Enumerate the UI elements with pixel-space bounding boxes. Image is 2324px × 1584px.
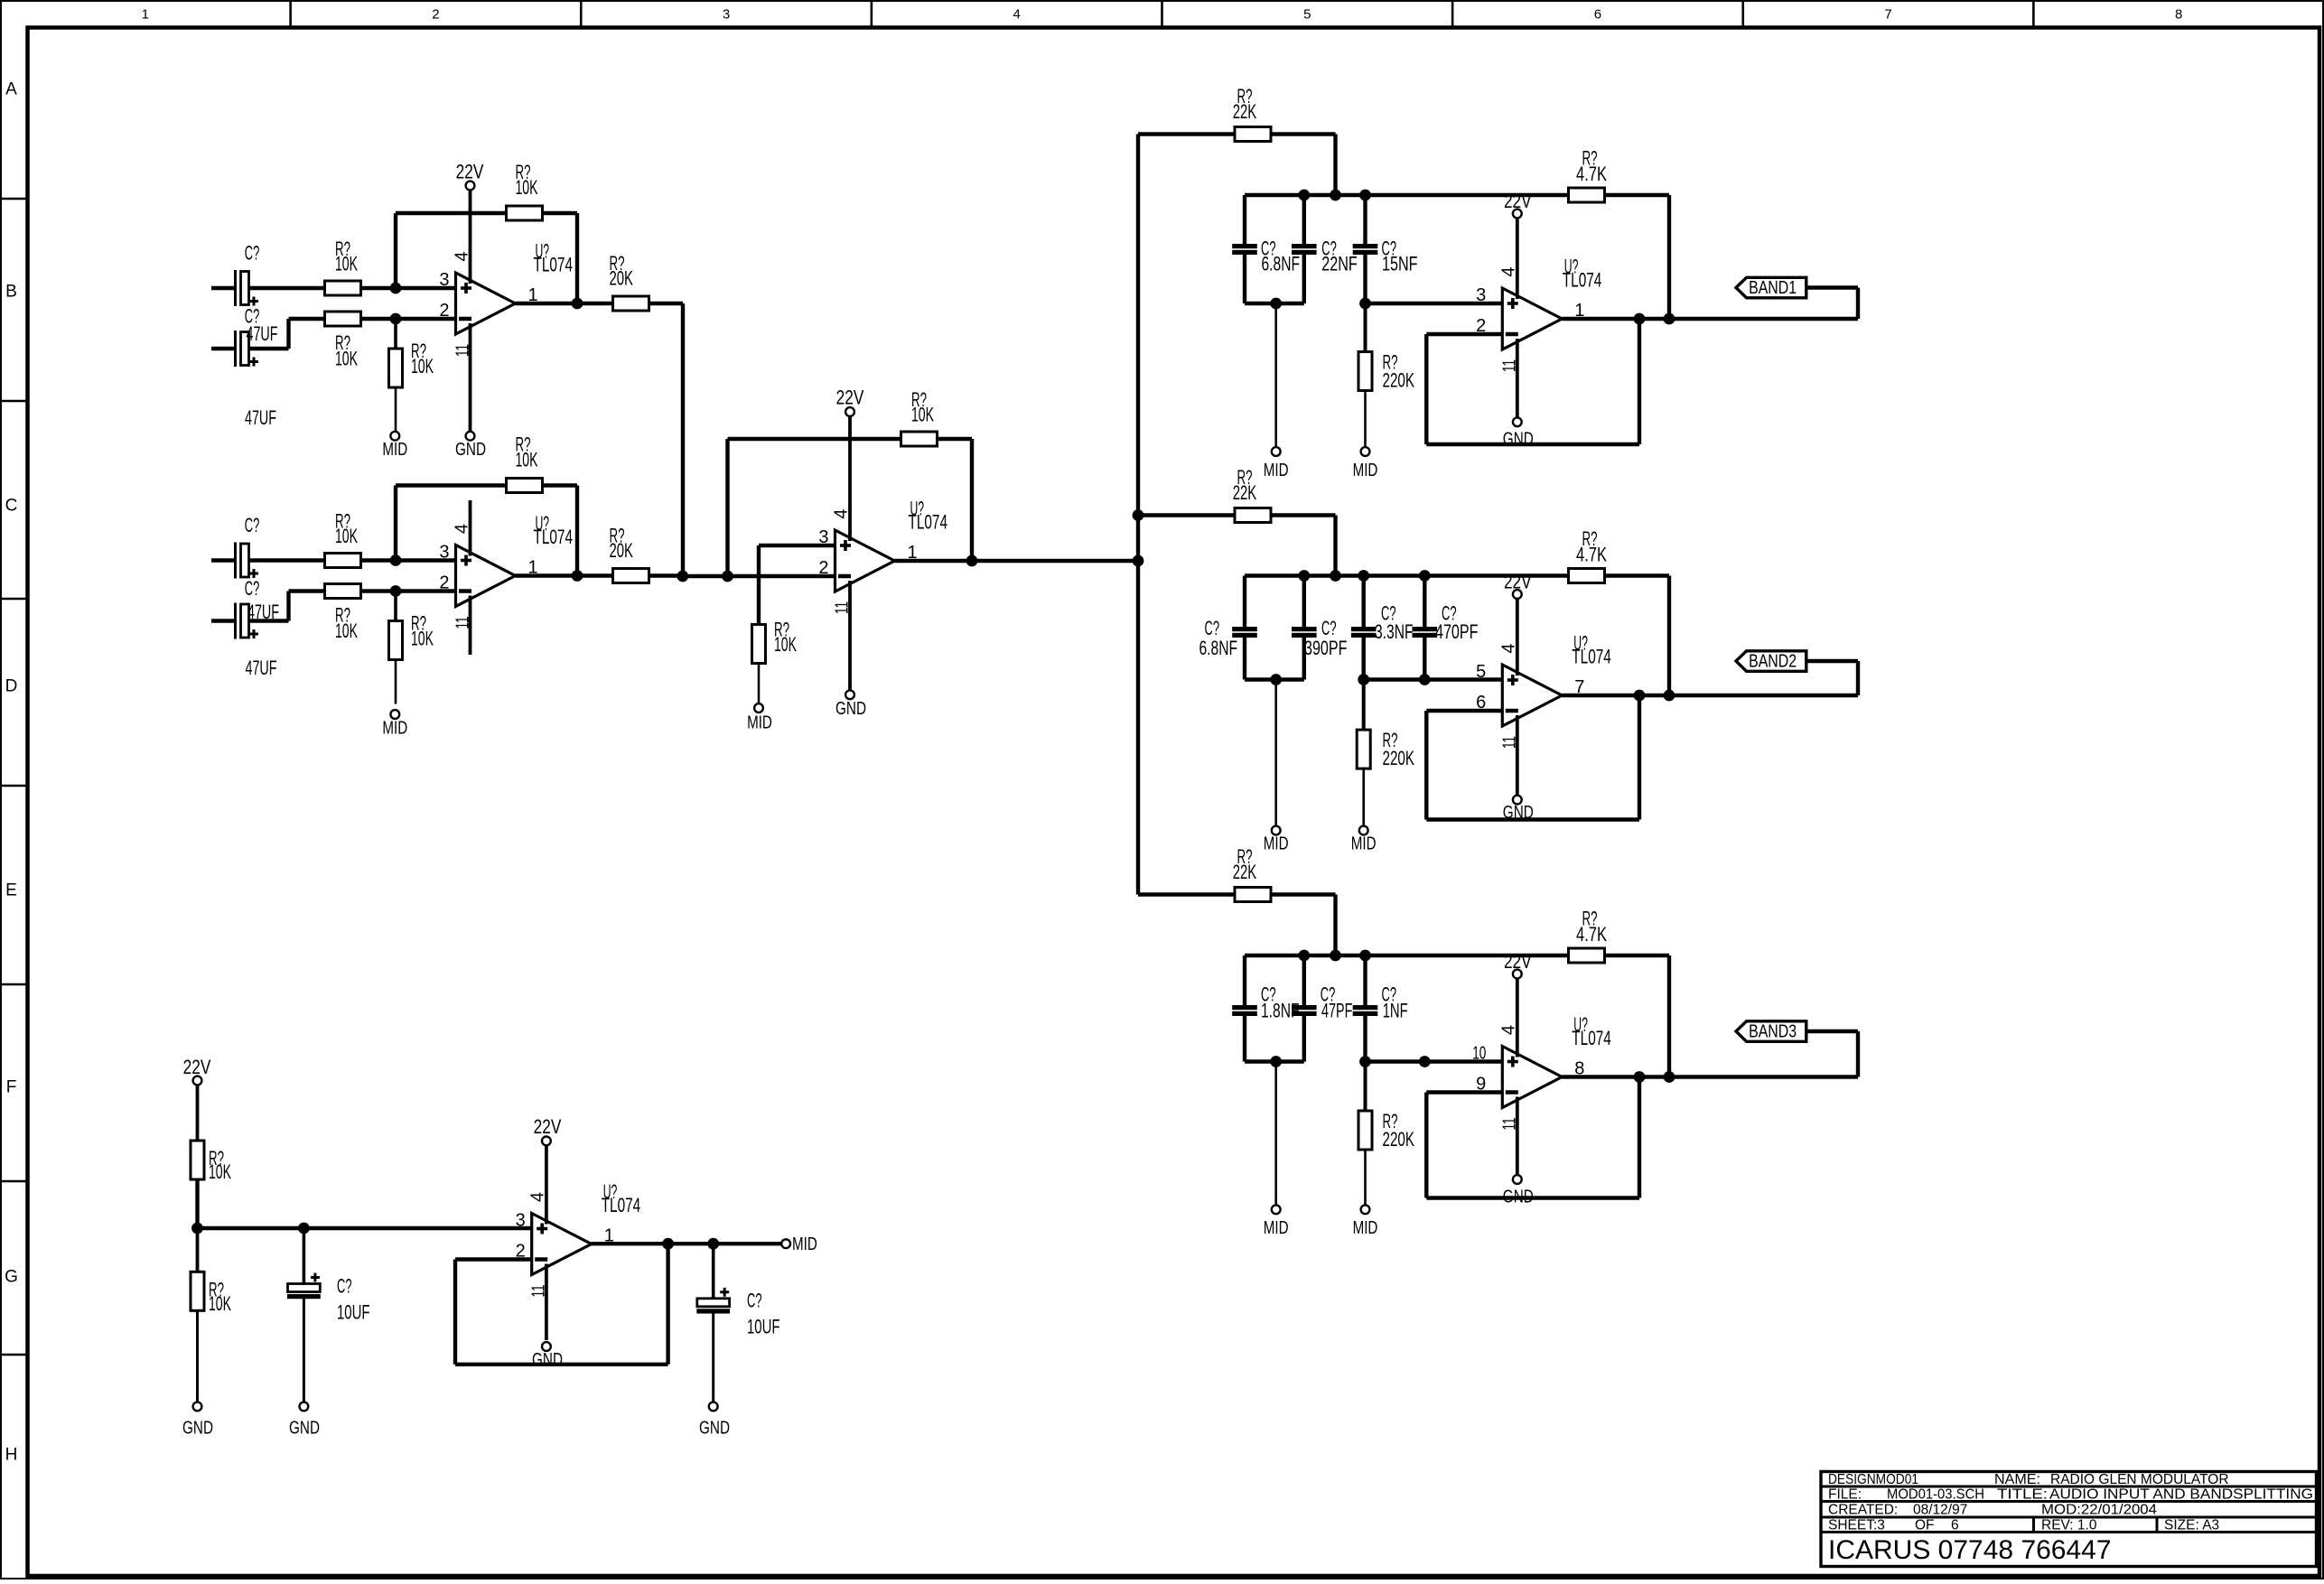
svg-text:OF: OF: [1915, 1517, 1935, 1533]
svg-text:CREATED:: CREATED:: [1828, 1502, 1898, 1517]
svg-text:4.7K: 4.7K: [1576, 163, 1607, 185]
svg-text:GND: GND: [289, 1419, 320, 1439]
svg-text:REV: 1.0: REV: 1.0: [2041, 1517, 2097, 1533]
svg-text:GND: GND: [455, 440, 486, 460]
svg-text:10K: 10K: [209, 1160, 231, 1183]
svg-text:1: 1: [142, 7, 149, 23]
svg-text:22K: 22K: [1233, 481, 1257, 504]
svg-text:NAME:: NAME:: [1994, 1472, 2040, 1487]
svg-text:4.7K: 4.7K: [1576, 544, 1607, 566]
svg-text:4.7K: 4.7K: [1576, 923, 1607, 946]
svg-text:47UF: 47UF: [246, 657, 277, 679]
svg-text:MID: MID: [382, 719, 407, 739]
svg-text:20K: 20K: [610, 267, 634, 290]
svg-text:GND: GND: [532, 1350, 563, 1370]
svg-text:10K: 10K: [335, 253, 358, 275]
svg-text:TL074: TL074: [1572, 1027, 1611, 1049]
svg-text:6.8NF: 6.8NF: [1262, 253, 1301, 275]
svg-text:TL074: TL074: [534, 526, 574, 548]
svg-text:GND: GND: [699, 1419, 730, 1439]
svg-text:15NF: 15NF: [1382, 253, 1418, 275]
svg-text:47UF: 47UF: [247, 601, 279, 623]
svg-text:2: 2: [432, 7, 439, 23]
svg-text:TITLE:: TITLE:: [1997, 1486, 2048, 1502]
svg-text:BAND3: BAND3: [1749, 1022, 1797, 1042]
svg-text:2: 2: [439, 573, 449, 593]
svg-text:6: 6: [1951, 1517, 1959, 1533]
svg-text:C?: C?: [337, 1275, 352, 1298]
svg-text:MID: MID: [1264, 1218, 1289, 1238]
svg-text:3: 3: [1476, 285, 1486, 305]
svg-text:10K: 10K: [411, 628, 434, 650]
svg-text:8: 8: [2175, 7, 2182, 23]
svg-text:47PF: 47PF: [1321, 1000, 1353, 1022]
svg-text:5: 5: [1303, 7, 1311, 23]
svg-text:BAND1: BAND1: [1749, 278, 1797, 298]
svg-text:E: E: [5, 881, 17, 900]
svg-text:TL074: TL074: [1563, 269, 1602, 292]
svg-text:22V: 22V: [456, 161, 484, 183]
svg-text:DESIGNMOD01: DESIGNMOD01: [1828, 1472, 1918, 1487]
svg-text:10K: 10K: [911, 404, 934, 426]
svg-text:22K: 22K: [1233, 861, 1257, 883]
svg-text:20K: 20K: [610, 539, 634, 562]
svg-text:22NF: 22NF: [1321, 253, 1358, 275]
svg-text:G: G: [5, 1268, 18, 1287]
svg-text:10K: 10K: [335, 525, 358, 547]
svg-text:6: 6: [1594, 7, 1601, 23]
svg-text:C: C: [5, 497, 18, 516]
svg-text:C?: C?: [747, 1290, 762, 1312]
svg-text:22V: 22V: [836, 387, 864, 409]
svg-text:SHEET:3: SHEET:3: [1828, 1517, 1885, 1533]
svg-text:RADIO GLEN MODULATOR: RADIO GLEN MODULATOR: [2050, 1472, 2229, 1487]
svg-text:10K: 10K: [411, 355, 434, 377]
svg-text:MID: MID: [1264, 461, 1289, 480]
svg-text:MID: MID: [1351, 834, 1377, 854]
svg-text:10K: 10K: [335, 348, 358, 370]
svg-text:470PF: 470PF: [1435, 620, 1479, 643]
svg-text:MID: MID: [792, 1235, 817, 1254]
svg-text:2: 2: [439, 301, 449, 321]
svg-text:MID: MID: [1353, 1218, 1378, 1238]
svg-text:10K: 10K: [209, 1292, 231, 1315]
svg-text:3: 3: [439, 270, 449, 290]
svg-text:MID: MID: [747, 713, 772, 733]
svg-text:390PF: 390PF: [1304, 637, 1348, 659]
svg-text:H: H: [5, 1446, 18, 1465]
svg-text:3: 3: [439, 543, 449, 563]
svg-text:SIZE: A3: SIZE: A3: [2164, 1517, 2219, 1533]
svg-text:C?: C?: [245, 577, 260, 600]
svg-text:220K: 220K: [1383, 1128, 1415, 1151]
svg-text:ICARUS 07748 766447: ICARUS 07748 766447: [1828, 1535, 2112, 1565]
svg-text:C?: C?: [245, 242, 260, 265]
svg-text:TL074: TL074: [909, 511, 948, 534]
svg-text:22K: 22K: [1233, 100, 1257, 123]
svg-text:MOD01-03.SCH: MOD01-03.SCH: [1887, 1486, 1984, 1502]
svg-text:08/12/97: 08/12/97: [1913, 1502, 1967, 1517]
svg-text:TL074: TL074: [534, 254, 574, 276]
svg-text:3.3NF: 3.3NF: [1375, 620, 1414, 643]
svg-text:FILE:: FILE:: [1828, 1486, 1862, 1502]
svg-text:BAND2: BAND2: [1749, 652, 1797, 672]
svg-text:10K: 10K: [774, 633, 797, 656]
svg-text:47UF: 47UF: [247, 322, 278, 345]
svg-text:MID: MID: [1264, 834, 1289, 854]
svg-text:5: 5: [1476, 662, 1486, 682]
svg-text:AUDIO INPUT AND BANDSPLITTING: AUDIO INPUT AND BANDSPLITTING: [2049, 1486, 2313, 1502]
svg-text:220K: 220K: [1383, 369, 1415, 392]
svg-text:D: D: [5, 677, 18, 696]
svg-text:1.8NF: 1.8NF: [1261, 1000, 1300, 1022]
svg-text:4: 4: [1013, 7, 1021, 23]
svg-text:22V: 22V: [534, 1115, 562, 1138]
svg-text:A: A: [5, 80, 17, 99]
svg-text:TL074: TL074: [602, 1194, 641, 1216]
svg-text:10: 10: [1472, 1044, 1486, 1064]
svg-text:10UF: 10UF: [337, 1301, 370, 1324]
svg-text:7: 7: [1884, 7, 1891, 23]
svg-text:B: B: [5, 283, 17, 302]
svg-text:3: 3: [516, 1211, 526, 1231]
svg-text:10K: 10K: [516, 449, 538, 471]
svg-text:MID: MID: [382, 440, 407, 460]
svg-text:F: F: [6, 1078, 17, 1097]
svg-text:3: 3: [723, 7, 730, 23]
svg-text:TL074: TL074: [1572, 646, 1611, 668]
svg-text:47UF: 47UF: [245, 406, 276, 429]
svg-text:GND: GND: [182, 1419, 213, 1439]
svg-text:10K: 10K: [516, 176, 538, 199]
svg-text:C?: C?: [245, 514, 260, 536]
svg-text:1NF: 1NF: [1383, 1000, 1408, 1022]
svg-text:GND: GND: [835, 699, 866, 719]
svg-text:220K: 220K: [1383, 747, 1415, 769]
svg-text:10K: 10K: [335, 620, 358, 642]
svg-text:22V: 22V: [183, 1056, 211, 1078]
svg-text:10UF: 10UF: [747, 1316, 780, 1338]
svg-text:6.8NF: 6.8NF: [1199, 637, 1238, 659]
svg-text:MID: MID: [1353, 461, 1378, 480]
svg-text:MOD:22/01/2004: MOD:22/01/2004: [2041, 1502, 2157, 1517]
